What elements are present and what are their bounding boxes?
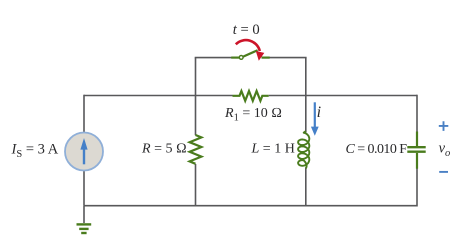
svg-text:C = 0.010 F: C = 0.010 F — [346, 142, 408, 157]
wire L branch upper — [305, 96, 307, 133]
wire switch branch left horizontal — [195, 57, 232, 59]
wire left rail lower — [83, 170, 85, 205]
resistor R1 (10 ohm, horizontal) — [233, 91, 269, 101]
inductor L (1 H, vertical coil) — [298, 131, 309, 168]
wire R branch lower — [195, 164, 197, 206]
svg-text:R = 5 Ω: R = 5 Ω — [141, 142, 187, 157]
wire top rail — [84, 95, 417, 97]
ground — [77, 224, 92, 233]
svg-text:vo: vo — [439, 141, 451, 160]
wire ground stub — [83, 206, 85, 223]
current source IS — [65, 133, 103, 171]
svg-text:t = 0: t = 0 — [233, 22, 260, 38]
resistor R (5 ohm, vertical) — [190, 135, 202, 164]
wire bottom rail — [84, 205, 417, 207]
wire switch branch right vertical — [305, 58, 307, 96]
wire right rail lower — [416, 169, 418, 207]
svg-text:i: i — [317, 104, 321, 121]
svg-text:R1 = 10 Ω: R1 = 10 Ω — [224, 106, 282, 124]
switch SW1 — [231, 50, 270, 59]
switch closing arrow (red arc, t=0 action) — [236, 40, 264, 61]
svg-text:L = 1 H: L = 1 H — [251, 141, 295, 156]
node vo plus sign — [439, 121, 449, 131]
wire switch branch right horizontal — [269, 57, 306, 59]
node vo minus sign — [439, 171, 448, 173]
capacitor C (0.010 F) — [407, 132, 425, 169]
wire right rail upper — [416, 95, 418, 132]
wire left rail upper — [83, 95, 85, 133]
current arrow i (blue, downward) — [311, 102, 319, 136]
wire switch branch left vertical — [195, 58, 197, 96]
wire R branch upper — [195, 96, 197, 136]
svg-text:IS = 3 A: IS = 3 A — [11, 142, 59, 161]
wire L branch lower — [305, 168, 307, 206]
